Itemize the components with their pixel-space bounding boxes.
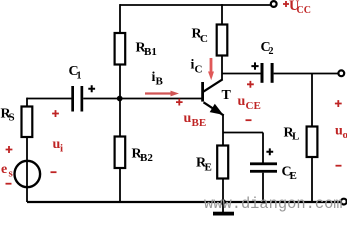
- resistor RC: [217, 25, 228, 56]
- svg-text:B1: B1: [144, 46, 157, 58]
- svg-text:B2: B2: [140, 152, 153, 164]
- node junction emitter bottom: [220, 199, 226, 205]
- capacitor C2: [261, 63, 274, 83]
- terminal VCC: [271, 1, 277, 7]
- ui plus sign: [52, 110, 59, 117]
- terminal output bottom: [341, 199, 347, 205]
- wire RE bottom: [222, 179, 224, 203]
- svg-text:u: u: [184, 111, 192, 126]
- C1 plus sign: [88, 85, 95, 92]
- transistor T base bar: [201, 82, 204, 102]
- iC current arrow: [210, 58, 213, 72]
- svg-text:C: C: [195, 64, 203, 76]
- wire RB1 bottom: [119, 65, 121, 99]
- resistor RB1: [115, 33, 126, 65]
- wire base rail right: [83, 98, 201, 100]
- svg-text:C: C: [200, 33, 208, 45]
- wire bottom rail: [27, 201, 341, 203]
- node junction base: [117, 96, 123, 102]
- svg-text:2: 2: [269, 46, 274, 57]
- svg-text:e: e: [1, 162, 7, 177]
- es plus sign: [6, 146, 13, 153]
- svg-text:BE: BE: [192, 117, 207, 129]
- ground stem: [222, 202, 224, 212]
- wire RS to source: [26, 137, 28, 202]
- svg-text:E: E: [205, 162, 212, 174]
- svg-text:u: u: [238, 94, 246, 109]
- source es circle: [14, 161, 40, 187]
- svg-text:1: 1: [77, 71, 82, 82]
- uo minus sign: [336, 165, 342, 167]
- iB current arrow: [145, 92, 171, 94]
- svg-text:i: i: [60, 143, 63, 155]
- svg-text:o: o: [343, 129, 347, 141]
- resistor RS: [22, 107, 33, 138]
- svg-text:T: T: [222, 88, 232, 103]
- svg-text:s: s: [9, 167, 14, 179]
- uCE plus sign: [247, 81, 254, 88]
- ground bar: [213, 212, 234, 216]
- wire top rail: [120, 4, 271, 6]
- capacitor C1: [71, 86, 83, 112]
- wire RC bottom / collector: [221, 56, 223, 81]
- ui minus sign: [51, 171, 57, 173]
- wire RB1 top: [119, 4, 121, 33]
- wire CE top: [262, 133, 264, 163]
- es minus sign: [6, 183, 12, 185]
- uo plus sign: [335, 100, 342, 107]
- svg-text:L: L: [292, 131, 299, 143]
- transistor emitter arrowhead: [210, 104, 224, 115]
- wire base rail left: [27, 98, 72, 100]
- wire RS top: [26, 98, 28, 107]
- terminal output top: [338, 70, 344, 76]
- wire CE bottom: [262, 173, 264, 202]
- svg-text:www.diangon.com: www.diangon.com: [204, 195, 343, 213]
- CE plus sign: [266, 148, 273, 155]
- wire emitter to RE: [222, 115, 224, 146]
- resistor RL: [307, 127, 318, 158]
- resistor RE: [217, 146, 228, 179]
- wire RL top: [311, 74, 313, 127]
- wire RL bottom: [311, 157, 313, 202]
- uBE plus sign: [176, 99, 183, 106]
- svg-text:CE: CE: [246, 100, 261, 112]
- wire emitter to CE branch: [223, 132, 263, 134]
- svg-text:S: S: [9, 112, 15, 124]
- svg-text:B: B: [156, 76, 164, 88]
- uCE minus sign: [246, 119, 252, 121]
- wire RB2 top: [119, 99, 121, 137]
- svg-text:E: E: [290, 170, 297, 182]
- wire RC top: [221, 4, 223, 24]
- wire C2 to output: [274, 73, 339, 75]
- wire collector to C2 branch: [222, 73, 261, 75]
- svg-text:CC: CC: [297, 5, 311, 16]
- transistor collector lead: [204, 79, 223, 91]
- capacitor CE: [250, 162, 277, 172]
- resistor RB2: [115, 137, 126, 169]
- C2 plus sign: [251, 62, 258, 69]
- label +UCC: [283, 0, 311, 16]
- transistor emitter lead: [204, 102, 224, 115]
- wire RB2 bottom: [119, 168, 121, 202]
